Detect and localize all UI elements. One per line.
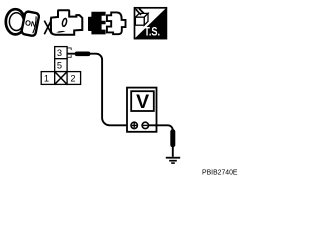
voltmeter V	[127, 88, 157, 132]
svg-text:5: 5	[57, 61, 62, 71]
engine icon with X	[44, 10, 82, 34]
disconnected connector icon (female half)	[88, 12, 106, 35]
ignition key ON icon	[6, 9, 40, 36]
test probe on ground lead	[170, 129, 175, 147]
svg-text:2: 2	[70, 74, 75, 84]
disconnected connector icon (male half)	[107, 12, 126, 34]
ground symbol	[166, 158, 180, 163]
voltmeter negative terminal	[142, 122, 148, 128]
svg-text:1: 1	[44, 74, 49, 84]
svg-text:T.S.: T.S.	[144, 27, 160, 39]
voltmeter positive terminal	[131, 122, 137, 128]
svg-text:3: 3	[57, 48, 62, 58]
wire from voltmeter to ground	[149, 125, 173, 157]
connector pin 5	[55, 59, 67, 72]
connector pin 3	[55, 47, 67, 59]
test probe on positive lead	[75, 52, 91, 57]
wire from pin 3 to voltmeter	[68, 54, 132, 126]
crossed-out pin	[55, 72, 67, 85]
T.S. circuit tester icon	[135, 7, 167, 38]
connector pin 2	[67, 72, 81, 85]
svg-text:V: V	[136, 91, 149, 113]
terminal symbol at pin 3	[67, 48, 71, 57]
svg-text:PBIB2740E: PBIB2740E	[202, 167, 238, 176]
connector pin 1	[41, 72, 55, 85]
